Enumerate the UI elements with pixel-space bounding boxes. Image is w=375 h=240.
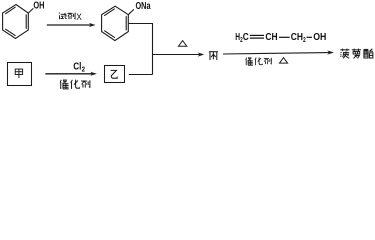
- svg-text:ONa: ONa: [136, 1, 151, 12]
- long arrow to product: [223, 50, 334, 54]
- top connector wire: [129, 24, 153, 75]
- svg-text:2: 2: [82, 66, 85, 73]
- svg-text:CH: CH: [265, 32, 277, 43]
- product label 菠萝酯: [340, 49, 373, 59]
- label 催化剂 (below arrow): [60, 79, 90, 89]
- label 乙: [111, 70, 118, 78]
- 萝: [352, 49, 361, 59]
- 催: [60, 79, 69, 89]
- bond ring2 to ONa: [128, 10, 133, 15]
- heat triangle below long arrow: [280, 58, 288, 64]
- svg-text:OH: OH: [33, 1, 44, 12]
- double bond: [250, 34, 264, 36]
- label 丙: [209, 52, 218, 60]
- 剂: [264, 58, 271, 64]
- arrow to 丙 with heat: [152, 52, 204, 56]
- single bond: [279, 36, 290, 38]
- box 甲: [8, 63, 32, 86]
- benzene ring 1 (phenol): [3, 5, 29, 39]
- formula H2C=CH-CH2-OH above arrow: [235, 32, 326, 44]
- ring 2 (sodium phenolate): [102, 6, 129, 40]
- 酯: [364, 49, 373, 58]
- label 试剂X: [59, 13, 75, 19]
- svg-text:CH: CH: [291, 32, 303, 43]
- arrow Cl2 / catalyst: [45, 72, 97, 76]
- 化: [255, 57, 262, 65]
- svg-text:OH: OH: [313, 32, 326, 43]
- svg-text:C: C: [243, 32, 249, 43]
- 试: [59, 13, 67, 19]
- svg-text:X: X: [76, 12, 82, 22]
- 化: [71, 80, 80, 89]
- bond ring1 to OH: [28, 9, 33, 13]
- svg-text:Cl: Cl: [73, 61, 81, 72]
- 剂: [81, 80, 90, 87]
- 菠: [340, 49, 349, 59]
- box 乙: [105, 66, 125, 83]
- label 甲: [15, 69, 22, 78]
- heat triangle above arrow: [179, 41, 187, 47]
- single bond: [307, 36, 312, 38]
- 剂: [67, 13, 75, 19]
- svg-text:2: 2: [303, 37, 306, 44]
- bottom connector wire: [129, 74, 153, 76]
- 催: [246, 57, 253, 65]
- label 催化剂 below long arrow: [246, 57, 272, 65]
- arrow reagent X: [47, 23, 96, 27]
